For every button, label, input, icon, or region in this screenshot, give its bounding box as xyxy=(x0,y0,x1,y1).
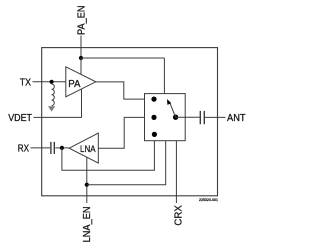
amplifier LNA xyxy=(69,133,98,163)
wire LNA input from switch xyxy=(98,117,152,148)
svg-text:VDET: VDET xyxy=(8,113,32,124)
switch box xyxy=(145,94,186,141)
wire LNA_EN vertical xyxy=(86,157,88,203)
doc number xyxy=(199,197,219,202)
inductor coil to detector xyxy=(52,84,55,106)
wire RX to switch throw 3 xyxy=(62,136,154,170)
switch common pole xyxy=(173,115,178,120)
wire PA_EN to switch control xyxy=(81,57,164,59)
pin ANT label xyxy=(227,113,246,124)
capacitor C2 ANT xyxy=(200,111,204,124)
pin LNA_EN label xyxy=(82,206,93,242)
svg-text:PA_EN: PA_EN xyxy=(77,6,88,36)
svg-text:RX: RX xyxy=(18,144,29,155)
ground arrow xyxy=(48,106,55,111)
switch contact 2 xyxy=(151,115,156,120)
svg-text:LNA_EN: LNA_EN xyxy=(82,206,93,242)
node: RX junction xyxy=(60,146,64,150)
svg-text:CRX: CRX xyxy=(174,205,185,226)
switch contact 1 xyxy=(151,97,156,102)
capacitor C1 RX dc block xyxy=(51,142,54,154)
wire capacitor to LNA xyxy=(55,147,69,149)
svg-text:TX: TX xyxy=(20,77,31,88)
amplifier PA xyxy=(66,67,96,97)
wire LNA_EN to switch xyxy=(87,141,166,185)
wire PA output to switch xyxy=(96,82,152,99)
pin PA_EN wire xyxy=(80,36,82,59)
label PA xyxy=(68,79,80,90)
wire PA enable xyxy=(80,58,82,74)
switch arm xyxy=(167,99,176,117)
pin ANT wire xyxy=(205,116,226,118)
svg-text:ANT: ANT xyxy=(227,113,246,124)
node: PA_EN junction xyxy=(79,56,83,60)
pin VDET wire xyxy=(34,89,82,117)
pin TX label xyxy=(20,77,31,88)
pin RX label xyxy=(18,144,29,155)
pin PA_EN label xyxy=(77,6,88,36)
label LNA xyxy=(80,144,96,154)
pin VDET label xyxy=(8,113,32,124)
svg-text:PA: PA xyxy=(68,79,80,90)
pin TX wire xyxy=(33,81,66,83)
pin CRX label xyxy=(174,205,185,226)
pin CRX wire xyxy=(175,141,177,203)
svg-text:LNA: LNA xyxy=(80,144,96,154)
wire common to ANT capacitor xyxy=(176,116,200,118)
IC outline box U1 xyxy=(42,48,218,196)
node: LNA_EN junction xyxy=(85,183,89,187)
wire switch control drop xyxy=(163,58,165,94)
node: TX junction xyxy=(50,80,54,84)
pin RX wire xyxy=(31,147,51,149)
svg-text:225320-001: 225320-001 xyxy=(199,197,219,202)
switch contact 3 xyxy=(152,132,157,137)
